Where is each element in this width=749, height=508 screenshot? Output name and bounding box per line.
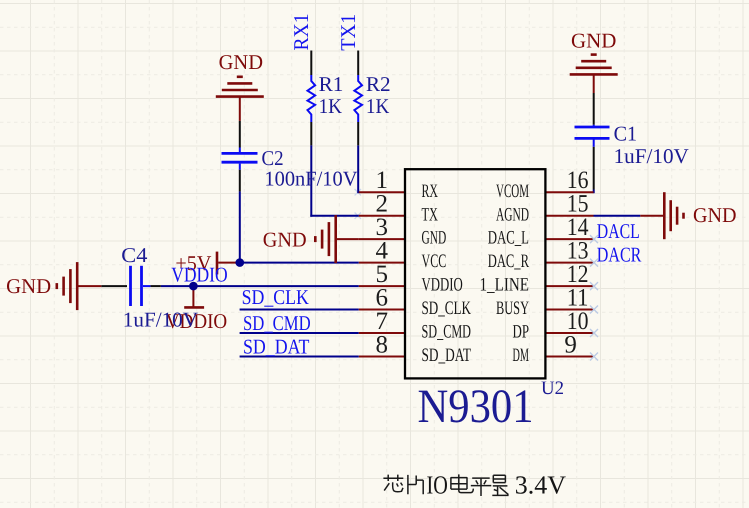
svg-text:DP: DP <box>513 322 530 343</box>
svg-text:1K: 1K <box>366 94 389 118</box>
svg-text:GND: GND <box>263 227 307 251</box>
svg-text:SD_CMD: SD_CMD <box>422 322 472 343</box>
svg-text:C4: C4 <box>121 243 148 267</box>
svg-text:IO: IO <box>427 471 448 500</box>
svg-text:1uF/10V: 1uF/10V <box>123 308 198 332</box>
svg-text:1uF/10V: 1uF/10V <box>614 144 689 168</box>
svg-text:VDDIO: VDDIO <box>422 275 463 296</box>
svg-text:GND: GND <box>422 228 447 249</box>
svg-text:AGND: AGND <box>496 204 529 225</box>
svg-text:3.4V: 3.4V <box>515 471 567 500</box>
svg-text:VCC: VCC <box>422 251 447 272</box>
svg-text:TX1: TX1 <box>336 14 360 51</box>
svg-text:SD_CLK: SD_CLK <box>422 298 472 319</box>
svg-text:DAC_R: DAC_R <box>488 251 529 272</box>
svg-text:DACL: DACL <box>597 219 640 243</box>
svg-text:TX: TX <box>422 204 439 225</box>
svg-text:N9301: N9301 <box>418 380 534 433</box>
svg-text:DACR: DACR <box>597 243 642 267</box>
svg-text:DAC_L: DAC_L <box>488 228 529 249</box>
svg-text:VCOM: VCOM <box>496 181 529 202</box>
svg-text:RX: RX <box>422 181 439 202</box>
svg-text:RX1: RX1 <box>289 14 313 51</box>
svg-text:R2: R2 <box>366 72 391 96</box>
svg-text:C1: C1 <box>614 122 638 146</box>
svg-text:R1: R1 <box>319 72 344 96</box>
svg-text:1K: 1K <box>319 94 342 118</box>
svg-text:DM: DM <box>513 345 530 366</box>
svg-text:8: 8 <box>376 332 389 359</box>
svg-text:GND: GND <box>219 50 263 74</box>
svg-text:GND: GND <box>571 29 616 53</box>
svg-text:VDDIO: VDDIO <box>171 263 228 287</box>
svg-text:U2: U2 <box>541 378 564 399</box>
svg-text:SD_DAT: SD_DAT <box>422 345 472 366</box>
svg-text:BUSY: BUSY <box>496 298 529 319</box>
svg-text:100nF/10V: 100nF/10V <box>264 167 357 191</box>
svg-text:GND: GND <box>6 274 51 298</box>
svg-text:SD_CMD: SD_CMD <box>243 311 311 335</box>
svg-text:SD_DAT: SD_DAT <box>243 335 310 359</box>
svg-text:1_LINE: 1_LINE <box>480 275 530 296</box>
svg-text:9: 9 <box>564 332 577 359</box>
svg-text:SD_CLK: SD_CLK <box>242 285 309 309</box>
svg-text:GND: GND <box>693 203 737 227</box>
